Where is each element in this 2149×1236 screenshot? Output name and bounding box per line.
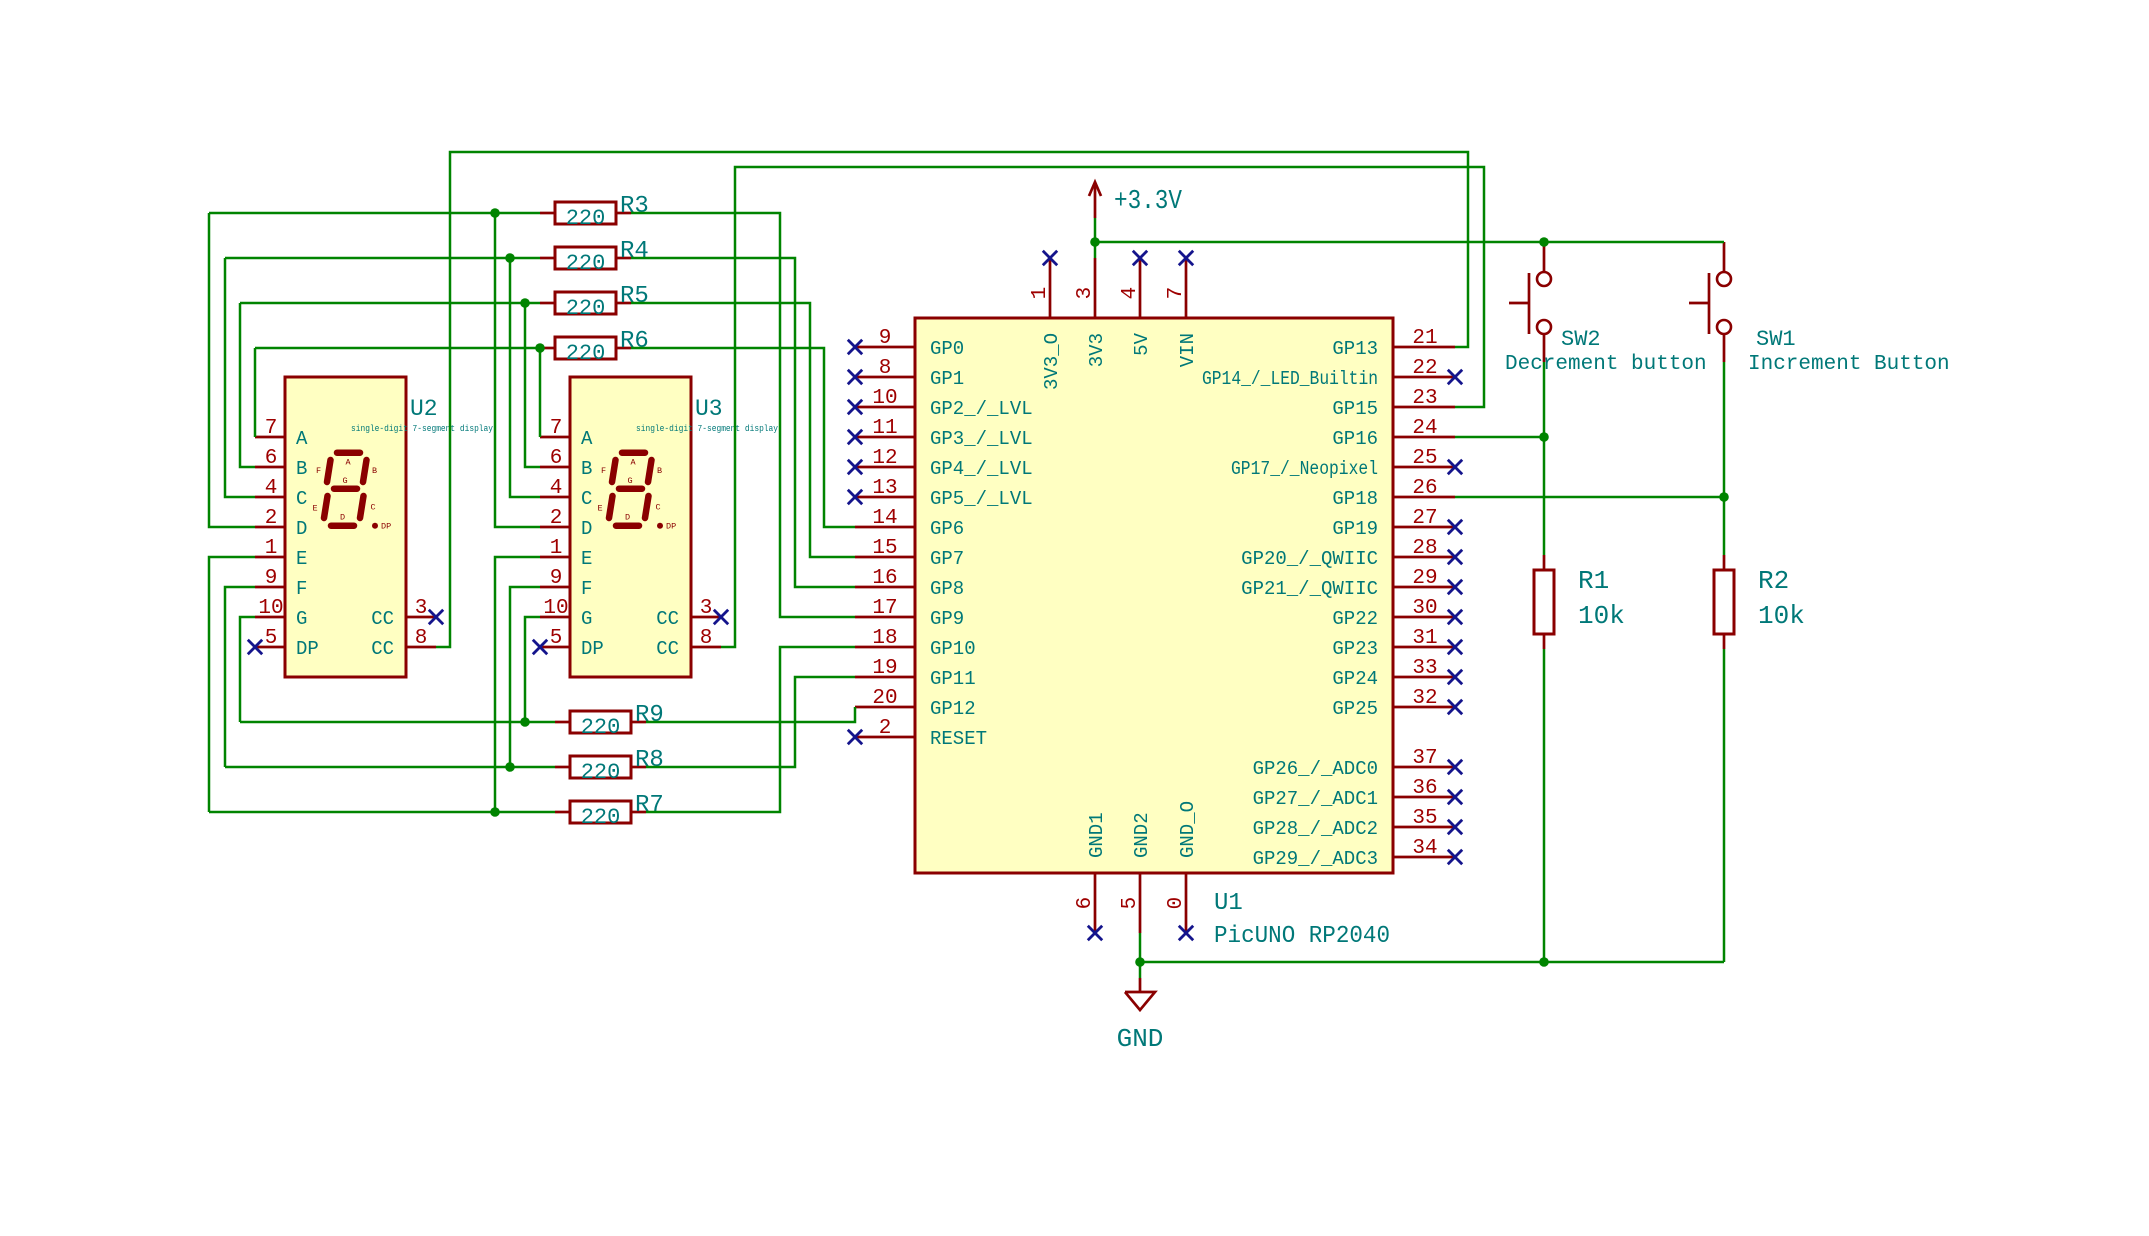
wire R1 to GND rail — [1543, 649, 1546, 962]
svg-text:15: 15 — [872, 537, 897, 560]
svg-text:R4: R4 — [620, 238, 649, 265]
svg-text:220: 220 — [581, 760, 621, 785]
svg-text:25: 25 — [1412, 447, 1437, 470]
svg-text:10k: 10k — [1578, 601, 1625, 631]
U1 pin 32 GP25 — [1332, 687, 1462, 720]
switch SW1 Increment Button — [1689, 242, 1950, 376]
U2 7-segment digit glyph — [313, 453, 392, 532]
svg-text:8: 8 — [879, 357, 892, 380]
svg-text:34: 34 — [1412, 837, 1437, 860]
svg-text:G: G — [628, 476, 633, 486]
U1 pin 18 GP10 — [855, 627, 976, 660]
svg-text:C: C — [371, 503, 376, 513]
svg-text:B: B — [581, 458, 592, 480]
wire net segB row R5 — [240, 302, 540, 305]
resistor R4 220 — [540, 238, 649, 276]
svg-text:GP8: GP8 — [930, 578, 964, 600]
svg-text:F: F — [601, 466, 606, 476]
U1 pin 19 GP11 — [855, 657, 976, 690]
svg-text:5: 5 — [550, 627, 563, 650]
svg-text:19: 19 — [872, 657, 897, 680]
wire U2.F to R8 row — [225, 587, 255, 767]
svg-text:U1: U1 — [1214, 890, 1243, 917]
svg-text:5: 5 — [265, 627, 278, 650]
svg-text:CC: CC — [371, 608, 394, 630]
U2 pin 1 E — [255, 537, 307, 570]
svg-text:24: 24 — [1412, 417, 1437, 440]
svg-text:GP13: GP13 — [1332, 338, 1378, 360]
U3 pin 6 B — [540, 447, 592, 480]
svg-text:GP9: GP9 — [930, 608, 964, 630]
wire SW2 to R1 — [1543, 362, 1546, 555]
U1 pin 31 GP23 — [1332, 627, 1462, 660]
svg-text:DP: DP — [381, 522, 391, 532]
7-segment display U3 body — [570, 377, 691, 677]
U1 pin 30 GP22 — [1332, 597, 1462, 630]
svg-text:0: 0 — [1165, 897, 1188, 910]
svg-text:RESET: RESET — [930, 728, 987, 750]
U2 pin 9 F — [255, 567, 307, 600]
wire net segE row R7 — [209, 811, 555, 814]
svg-text:D: D — [625, 513, 630, 523]
U1 pin 17 GP9 — [855, 597, 964, 630]
svg-text:30: 30 — [1412, 597, 1437, 620]
svg-text:10: 10 — [872, 387, 897, 410]
svg-text:single-digit 7-segment display: single-digit 7-segment display — [636, 424, 779, 434]
svg-text:10: 10 — [258, 597, 283, 620]
svg-text:8: 8 — [415, 627, 428, 650]
wire GP18 to SW1 column — [1455, 496, 1724, 499]
svg-text:GP3_/_LVL: GP3_/_LVL — [930, 428, 1033, 450]
svg-text:5: 5 — [1119, 897, 1142, 910]
wire U2.CC8 to GP13 — [436, 152, 1468, 647]
U1 pin 6 GND1 — [1074, 812, 1108, 940]
svg-text:12: 12 — [872, 447, 897, 470]
svg-text:R3: R3 — [620, 193, 649, 220]
svg-text:SW2: SW2 — [1561, 327, 1601, 352]
U1 pin 22 GP14_/_LED_Builtin — [1202, 357, 1462, 390]
wire U2.A to R6 row — [254, 348, 257, 437]
resistor R3 220 — [540, 193, 649, 231]
U3 pin 2 D — [540, 507, 592, 540]
svg-text:220: 220 — [581, 715, 621, 740]
svg-text:4: 4 — [1119, 287, 1142, 300]
svg-text:3: 3 — [415, 597, 428, 620]
wire SW1 to R2 — [1723, 362, 1726, 555]
svg-text:VIN: VIN — [1177, 333, 1199, 367]
svg-text:GP28_/_ADC2: GP28_/_ADC2 — [1253, 818, 1378, 840]
wire U3.E to R7 junction — [495, 557, 540, 812]
U1 pin 36 GP27_/_ADC1 — [1253, 777, 1463, 810]
wire U2.G to R9 row — [240, 617, 255, 722]
U1 pin 5 GND2 — [1119, 812, 1153, 933]
junction (495,812) — [490, 807, 500, 817]
svg-text:3V3: 3V3 — [1086, 333, 1108, 367]
svg-text:GP21_/_QWIIC: GP21_/_QWIIC — [1241, 578, 1378, 600]
wire net segF row R8 — [225, 766, 555, 769]
svg-text:21: 21 — [1412, 327, 1437, 350]
svg-text:GP7: GP7 — [930, 548, 964, 570]
wire GP16 to SW2 column — [1455, 436, 1544, 439]
svg-text:31: 31 — [1412, 627, 1437, 650]
wire R3 to GP9 — [631, 213, 855, 617]
svg-text:8: 8 — [700, 627, 713, 650]
wire U3.CC8 to GP15 — [721, 167, 1484, 647]
svg-text:C: C — [656, 503, 661, 513]
svg-text:GP2_/_LVL: GP2_/_LVL — [930, 398, 1033, 420]
U1 pin 33 GP24 — [1332, 657, 1462, 690]
svg-text:29: 29 — [1412, 567, 1437, 590]
svg-text:B: B — [372, 466, 377, 476]
svg-text:Increment Button: Increment Button — [1748, 353, 1950, 376]
U1 pin 16 GP8 — [855, 567, 964, 600]
wire R2 to GND rail — [1723, 649, 1726, 962]
power symbol GND — [1117, 978, 1164, 1054]
U1 pin 12 GP4_/_LVL — [848, 447, 1033, 480]
svg-text:GP24: GP24 — [1332, 668, 1378, 690]
svg-text:CC: CC — [656, 608, 679, 630]
svg-text:35: 35 — [1412, 807, 1437, 830]
wire U3.D to R3 junction — [495, 213, 540, 527]
wire U2.D to R3 row — [209, 213, 255, 527]
svg-text:DP: DP — [296, 638, 319, 660]
svg-text:11: 11 — [872, 417, 897, 440]
svg-text:GP10: GP10 — [930, 638, 976, 660]
U3 pin 5 DP — [533, 627, 604, 660]
svg-text:5V: 5V — [1131, 332, 1153, 355]
svg-text:GP6: GP6 — [930, 518, 964, 540]
U1 pin 1 3V3_O — [1029, 251, 1063, 390]
junction (1140,962) — [1135, 957, 1145, 967]
U1 pin 29 GP21_/_QWIIC — [1241, 567, 1462, 600]
svg-text:9: 9 — [879, 327, 892, 350]
U1 pin 13 GP5_/_LVL — [848, 477, 1033, 510]
svg-text:GP19: GP19 — [1332, 518, 1378, 540]
U3 7-segment digit glyph — [598, 453, 677, 532]
svg-text:A: A — [581, 428, 593, 450]
U1 pin 3 3V3 — [1074, 258, 1108, 367]
svg-text:R7: R7 — [635, 792, 664, 819]
svg-text:9: 9 — [265, 567, 278, 590]
svg-text:R2: R2 — [1758, 566, 1789, 596]
svg-text:37: 37 — [1412, 747, 1437, 770]
wire net segG row R9 — [240, 721, 555, 724]
svg-text:GP11: GP11 — [930, 668, 976, 690]
svg-text:B: B — [657, 466, 662, 476]
junction (1544,962) — [1539, 957, 1549, 967]
wire +3.3V rail — [1094, 218, 1097, 258]
svg-text:D: D — [581, 518, 592, 540]
svg-text:R6: R6 — [620, 328, 649, 355]
U2 pin 2 D — [255, 507, 307, 540]
U2 pin 10 G — [255, 597, 307, 630]
svg-text:27: 27 — [1412, 507, 1437, 530]
svg-text:GND: GND — [1117, 1024, 1164, 1054]
IC U1 PicUNO RP2040 body — [915, 318, 1393, 873]
svg-text:G: G — [296, 608, 307, 630]
svg-text:G: G — [581, 608, 592, 630]
svg-text:4: 4 — [550, 477, 563, 500]
svg-text:F: F — [296, 578, 307, 600]
svg-text:2: 2 — [879, 717, 892, 740]
resistor R6 220 — [540, 328, 649, 366]
junction (1095,242) — [1090, 237, 1100, 247]
svg-text:C: C — [581, 488, 592, 510]
svg-text:F: F — [316, 466, 321, 476]
wire U3.B to R5 junction — [525, 303, 540, 467]
U2 pin 4 C — [255, 477, 307, 510]
junction (1544,242) — [1539, 237, 1549, 247]
svg-text:23: 23 — [1412, 387, 1437, 410]
svg-text:GP18: GP18 — [1332, 488, 1378, 510]
svg-text:10: 10 — [543, 597, 568, 620]
svg-text:7: 7 — [1165, 287, 1188, 300]
wire R7 to GP10 — [646, 647, 855, 812]
svg-text:16: 16 — [872, 567, 897, 590]
wire R9 to GP12 — [646, 707, 855, 722]
svg-text:32: 32 — [1412, 687, 1437, 710]
svg-text:E: E — [598, 503, 603, 513]
junction (510,258) — [505, 253, 515, 263]
U1 pin 27 GP19 — [1332, 507, 1462, 540]
U1 pin 35 GP28_/_ADC2 — [1253, 807, 1463, 840]
svg-text:GP26_/_ADC0: GP26_/_ADC0 — [1253, 758, 1378, 780]
U1 pin 23 GP15 — [1332, 387, 1455, 420]
U1 pin 24 GP16 — [1332, 417, 1455, 450]
svg-text:3: 3 — [700, 597, 713, 620]
svg-text:GP29_/_ADC3: GP29_/_ADC3 — [1253, 848, 1378, 870]
svg-text:GND1: GND1 — [1086, 812, 1108, 858]
wire GND2 to GND symbol — [1139, 933, 1142, 978]
U1 pin 20 GP12 — [855, 687, 976, 720]
7-segment display U2 body — [285, 377, 406, 677]
wire U3.F to R8 junction — [510, 587, 540, 767]
wire net segC row R4 — [225, 257, 540, 260]
U1 pin 25 GP17_/_Neopixel — [1231, 447, 1462, 480]
svg-text:2: 2 — [265, 507, 278, 530]
U1 pin 37 GP26_/_ADC0 — [1253, 747, 1463, 780]
svg-text:C: C — [296, 488, 307, 510]
wire GND rail bottom — [1140, 961, 1724, 964]
svg-text:26: 26 — [1412, 477, 1437, 500]
wire U3.C to R4 junction — [510, 258, 540, 497]
svg-text:D: D — [296, 518, 307, 540]
wire U3.G to R9 junction — [525, 617, 540, 722]
svg-text:20: 20 — [872, 687, 897, 710]
svg-text:GP16: GP16 — [1332, 428, 1378, 450]
svg-text:CC: CC — [656, 638, 679, 660]
svg-text:CC: CC — [371, 638, 394, 660]
svg-text:B: B — [296, 458, 307, 480]
svg-text:22: 22 — [1412, 357, 1437, 380]
U2 pin 8 CC — [371, 627, 436, 660]
svg-text:220: 220 — [566, 341, 606, 366]
svg-text:GP27_/_ADC1: GP27_/_ADC1 — [1253, 788, 1378, 810]
svg-text:1: 1 — [550, 537, 563, 560]
svg-text:U2: U2 — [410, 396, 438, 422]
svg-text:GP4_/_LVL: GP4_/_LVL — [930, 458, 1033, 480]
svg-text:DP: DP — [581, 638, 604, 660]
U1 pin 0 GND_O — [1165, 801, 1199, 940]
svg-text:GP5_/_LVL: GP5_/_LVL — [930, 488, 1033, 510]
svg-text:GP12: GP12 — [930, 698, 976, 720]
junction (495,213) — [490, 208, 500, 218]
U3 pin 1 E — [540, 537, 592, 570]
wire net segD row R3 — [209, 212, 540, 215]
svg-text:6: 6 — [265, 447, 278, 470]
svg-text:GND2: GND2 — [1131, 812, 1153, 858]
svg-text:3V3_O: 3V3_O — [1041, 333, 1063, 390]
svg-text:GP17_/_Neopixel: GP17_/_Neopixel — [1231, 458, 1378, 480]
wire U2.B to R5 row — [240, 303, 255, 467]
svg-text:13: 13 — [872, 477, 897, 500]
U1 pin 15 GP7 — [855, 537, 964, 570]
svg-text:PicUNO RP2040: PicUNO RP2040 — [1214, 923, 1390, 950]
U1 pin 21 GP13 — [1332, 327, 1455, 360]
U3 pin 3 CC — [656, 597, 728, 630]
U3 pin 8 CC — [656, 627, 721, 660]
U2 pin 3 CC — [371, 597, 443, 630]
U2 pin 5 DP — [248, 627, 319, 660]
wire R6 to GP6 — [631, 348, 855, 527]
svg-text:E: E — [296, 548, 307, 570]
junction (540,348) — [535, 343, 545, 353]
svg-text:U3: U3 — [695, 396, 723, 422]
svg-text:36: 36 — [1412, 777, 1437, 800]
svg-text:SW1: SW1 — [1756, 327, 1796, 352]
svg-text:9: 9 — [550, 567, 563, 590]
svg-text:DP: DP — [666, 522, 676, 532]
svg-text:Decrement button: Decrement button — [1505, 353, 1707, 376]
U1 pin 4 5V — [1119, 251, 1153, 356]
U1 pin 28 GP20_/_QWIIC — [1241, 537, 1462, 570]
wire U2.C to R4 row — [225, 258, 255, 497]
switch SW2 Decrement button — [1505, 242, 1707, 376]
svg-text:GP25: GP25 — [1332, 698, 1378, 720]
wire U2.E to R7 row — [209, 557, 255, 812]
svg-text:GP14_/_LED_Builtin: GP14_/_LED_Builtin — [1202, 368, 1378, 390]
power symbol +3.3V — [1089, 182, 1183, 218]
svg-text:A: A — [346, 457, 352, 467]
U3 pin 10 G — [540, 597, 592, 630]
U2 pin 6 B — [255, 447, 307, 480]
resistor R8 220 — [555, 747, 664, 785]
svg-text:220: 220 — [581, 805, 621, 830]
svg-text:1: 1 — [265, 537, 278, 560]
junction (525,303) — [520, 298, 530, 308]
svg-text:6: 6 — [1074, 897, 1097, 910]
svg-text:7: 7 — [265, 417, 278, 440]
resistor R5 220 — [540, 283, 649, 321]
svg-text:17: 17 — [872, 597, 897, 620]
svg-text:E: E — [313, 503, 318, 513]
svg-text:R1: R1 — [1578, 566, 1609, 596]
svg-text:GP22: GP22 — [1332, 608, 1378, 630]
resistor R7 220 — [555, 792, 664, 830]
svg-text:A: A — [296, 428, 308, 450]
svg-text:single-digit 7-segment display: single-digit 7-segment display — [351, 424, 494, 434]
U1 pin 9 GP0 — [848, 327, 964, 360]
U1 pin 10 GP2_/_LVL — [848, 387, 1033, 420]
svg-text:E: E — [581, 548, 592, 570]
svg-text:33: 33 — [1412, 657, 1437, 680]
svg-text:14: 14 — [872, 507, 897, 530]
svg-text:220: 220 — [566, 296, 606, 321]
svg-text:F: F — [581, 578, 592, 600]
U3 pin 4 C — [540, 477, 592, 510]
svg-text:R5: R5 — [620, 283, 649, 310]
svg-text:R8: R8 — [635, 747, 664, 774]
svg-text:GND_O: GND_O — [1177, 801, 1199, 858]
U2 pin 7 A — [255, 417, 308, 450]
junction (510,767) — [505, 762, 515, 772]
U3 pin 9 F — [540, 567, 592, 600]
svg-text:R9: R9 — [635, 702, 664, 729]
junction (1544,437) — [1539, 432, 1549, 442]
svg-text:2: 2 — [550, 507, 563, 530]
U1 pin 11 GP3_/_LVL — [848, 417, 1033, 450]
svg-text:A: A — [631, 457, 637, 467]
U3 pin 7 A — [540, 417, 593, 450]
svg-text:10k: 10k — [1758, 601, 1805, 631]
resistor R2 10k — [1714, 555, 1805, 649]
wire R8 to GP11 — [646, 677, 855, 767]
svg-text:3: 3 — [1074, 287, 1097, 300]
wire +3.3V to switches — [1095, 241, 1724, 244]
svg-text:+3.3V: +3.3V — [1114, 187, 1183, 217]
svg-text:D: D — [340, 513, 345, 523]
svg-text:GP20_/_QWIIC: GP20_/_QWIIC — [1241, 548, 1378, 570]
svg-text:6: 6 — [550, 447, 563, 470]
wire R4 to GP8 — [631, 258, 855, 587]
U1 pin 34 GP29_/_ADC3 — [1253, 837, 1463, 870]
junction (1724,497) — [1719, 492, 1729, 502]
svg-text:28: 28 — [1412, 537, 1437, 560]
U1 pin 7 VIN — [1165, 251, 1199, 367]
wire R5 to GP7 — [631, 303, 855, 557]
resistor R9 220 — [555, 702, 664, 740]
svg-text:GP23: GP23 — [1332, 638, 1378, 660]
svg-text:GP0: GP0 — [930, 338, 964, 360]
wire U3.A to R6 junction — [539, 348, 542, 437]
svg-text:GP15: GP15 — [1332, 398, 1378, 420]
svg-text:220: 220 — [566, 206, 606, 231]
svg-text:4: 4 — [265, 477, 278, 500]
junction (525,722) — [520, 717, 530, 727]
svg-text:1: 1 — [1029, 287, 1052, 300]
resistor R1 10k — [1534, 555, 1625, 649]
U1 pin 26 GP18 — [1332, 477, 1455, 510]
U1 pin 8 GP1 — [848, 357, 964, 390]
wire net segA row R6 — [255, 347, 540, 350]
U1 pin 2 RESET — [848, 717, 987, 750]
svg-text:GP1: GP1 — [930, 368, 964, 390]
svg-text:18: 18 — [872, 627, 897, 650]
svg-text:7: 7 — [550, 417, 563, 440]
svg-text:220: 220 — [566, 251, 606, 276]
svg-text:G: G — [343, 476, 348, 486]
U1 pin 14 GP6 — [855, 507, 964, 540]
